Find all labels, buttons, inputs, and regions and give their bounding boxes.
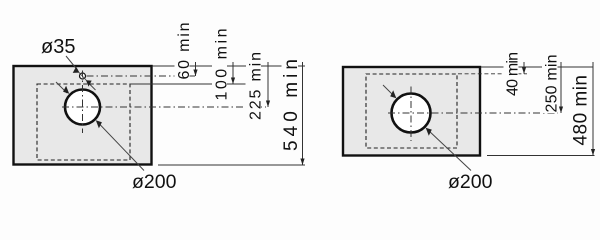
svg-text:250 min: 250 min [544,55,561,113]
white knockouts right labels [504,51,519,98]
hole circle small left (ø35) [80,73,86,79]
svg-text:ø200: ø200 [132,171,177,193]
ø200 dim arrow lower-right + leader right [428,130,471,171]
dim line 540 [302,62,304,165]
bottom reference line right [487,155,595,157]
ø35 opposite arrow [88,82,96,90]
center line vertical right [410,87,412,142]
panel (worktop) left [14,66,152,165]
leader ø35 [66,56,78,70]
dim line 100 [232,62,234,84]
svg-text:40 min: 40 min [505,52,522,96]
svg-text:60 min: 60 min [176,23,193,80]
panel right [343,67,480,156]
svg-text:ø35: ø35 [41,36,75,58]
dim line 60 [195,62,197,76]
svg-text:480 min: 480 min [571,75,592,146]
center line horizontal right [388,112,558,114]
ø200 dim arrow upper-left right [383,85,394,96]
hole circle right [392,94,431,133]
ø200 dim arrow lower-right + leader [98,123,144,171]
bottom reference line left [158,164,305,166]
dim line 250 [560,62,562,113]
dim line 225 [267,62,269,107]
top reference line left [153,65,306,67]
dashed cutout rectangle right [366,74,457,148]
center line vertical [82,71,84,134]
svg-text:ø200: ø200 [448,171,493,193]
ø200 dim arrow upper-left [56,82,67,93]
dim line 40 [523,62,525,74]
ref line at dashed-top (100 min) [130,83,246,85]
dashed-top extension (40 min) [458,73,527,75]
dashed cutout rectangle left [37,84,130,160]
center line horizontal big hole [62,106,266,108]
white knockouts for rotated labels [175,22,190,80]
ø35 axis through small circle [79,73,87,81]
center line horizontal small hole [87,75,197,77]
hole circle big left [65,90,100,125]
dim line 480 [592,62,594,156]
top reference line right [481,66,593,68]
